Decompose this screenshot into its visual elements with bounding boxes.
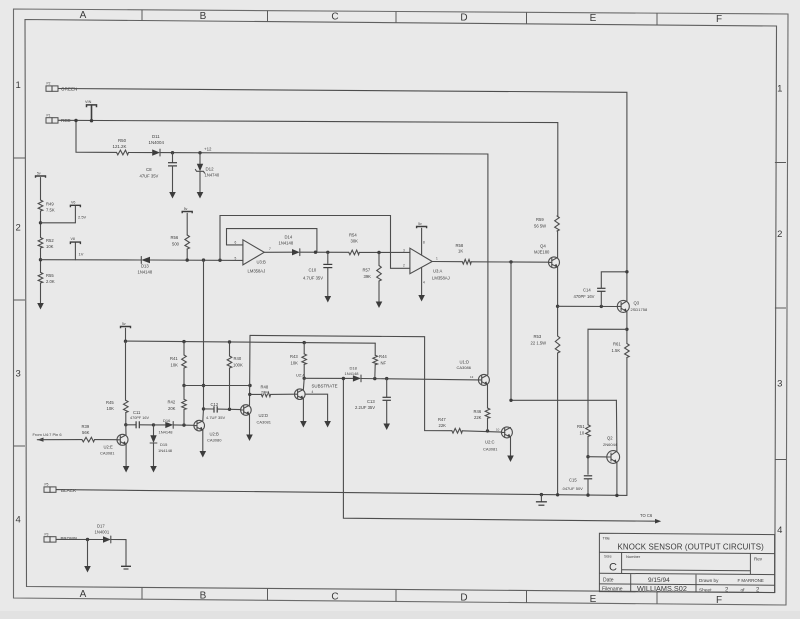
svg-text:R50: R50 [118,138,127,143]
svg-text:30K: 30K [351,239,359,244]
wire Q3 base [558,305,618,307]
svg-text:R58: R58 [456,243,464,248]
svg-text:Sheet: Sheet [699,587,712,593]
svg-text:2: 2 [777,229,782,240]
chassis ground [540,495,542,502]
svg-text:U2:B: U2:B [210,431,220,436]
svg-text:R61: R61 [613,341,621,346]
svg-text:Date: Date [603,578,614,584]
svg-text:U1:D: U1:D [460,359,470,364]
svg-text:C8: C8 [146,167,152,172]
svg-text:CA3081: CA3081 [257,419,272,424]
svg-text:V6: V6 [71,200,75,204]
svg-text:1N4001: 1N4001 [95,529,110,534]
junction collector node [509,399,512,402]
svg-text:R53: R53 [534,334,542,339]
svg-text:E: E [590,594,597,605]
svg-text:20K: 20K [168,406,176,411]
wire GREEN net [58,89,627,301]
resistor R49 7.5K [38,200,43,211]
svg-text:4.7UF 35V: 4.7UF 35V [303,276,323,281]
resistor R55 2.0K [38,272,43,283]
svg-text:2.5V: 2.5V [78,215,87,220]
svg-text:CA3081: CA3081 [100,450,115,455]
wire to D16 [154,424,166,426]
svg-text:4: 4 [312,390,314,394]
svg-text:4.7UF 35V: 4.7UF 35V [206,415,225,420]
junction C14 on green net [625,270,628,273]
junction V6 tap [39,221,42,224]
ground U2:A emitter [302,399,304,421]
svg-text:R44: R44 [379,354,387,359]
wire RED drop to +12 rail [76,121,117,153]
transistor U2:E CA3081 [117,434,128,445]
capacitor C15 .047UF 50V [584,475,592,477]
capacitor C12 4.7UF 35V [204,408,214,410]
svg-text:D15: D15 [160,442,168,447]
junction R56 on main wire [186,258,189,261]
svg-text:7: 7 [269,247,271,251]
wire U3B inverting input [227,244,243,246]
svg-text:C11: C11 [133,410,141,415]
svg-text:R43: R43 [290,354,298,359]
svg-text:13: 13 [470,375,474,379]
svg-text:R54: R54 [349,232,357,237]
svg-text:2: 2 [16,223,21,234]
power flag U3A supply [417,227,427,229]
junction R46 bottom [486,429,489,432]
svg-text:4: 4 [16,515,21,526]
resistor R45 10K [125,341,127,400]
wire BROWN net [56,538,103,540]
svg-text:R55: R55 [46,273,54,278]
svg-text:2.0K: 2.0K [46,279,55,284]
wire D16 to U2:B base [173,424,194,426]
svg-text:47UF 35V: 47UF 35V [140,173,159,178]
svg-text:Filename: Filename [602,587,623,593]
junction R57 tap [377,251,380,254]
resistor R42 20K [183,386,185,400]
capacitor C10 4.7UF 35V [327,252,329,263]
wire U2:A collector [302,378,305,389]
ground U2:E emitter [125,445,127,466]
svg-text:10: 10 [580,430,585,435]
svg-text:LM358AJ: LM358AJ [248,269,266,274]
junction C14 bottom [600,305,603,308]
resistor R51 10 [586,425,591,437]
resistor R57 39K [378,253,380,266]
svg-text:CA3086: CA3086 [457,365,472,370]
junction R40 bottom [228,408,231,411]
svg-text:1.5K: 1.5K [612,348,621,353]
wire BLACK rail [56,490,627,496]
svg-text:R47: R47 [438,417,446,422]
svg-text:P5: P5 [45,483,49,487]
power flag VIN [87,105,97,107]
diode D14 1N4148 [292,249,300,255]
diode D18 1N4148 [353,375,361,381]
wire Q2 emitter to rail [616,463,618,496]
junction D15 tap [152,423,155,426]
svg-text:D17: D17 [97,523,105,528]
junction R53 on rail [556,493,559,496]
svg-text:8: 8 [423,240,425,244]
svg-text:5v: 5v [418,222,422,226]
wire coupling drop from main node [203,260,205,409]
resistor R52 10K [38,238,43,249]
ground U2:A substrate [305,394,328,421]
svg-text:1N4148: 1N4148 [345,371,360,376]
transistor U2:B CA3080 [194,420,205,431]
svg-text:LM358AJ: LM358AJ [432,276,450,281]
svg-text:7.5K: 7.5K [46,208,55,213]
wire output down to U2:C collector node [510,262,512,400]
ground BROWN [87,540,89,567]
svg-text:1K: 1K [458,248,463,253]
svg-text:3: 3 [777,379,782,390]
svg-text:5v: 5v [184,207,188,211]
svg-text:F: F [716,14,722,25]
svg-text:A: A [80,589,87,600]
svg-text:CA3081: CA3081 [483,446,498,451]
svg-text:10K: 10K [46,244,54,249]
svg-text:5v: 5v [122,322,126,326]
svg-text:CA3080: CA3080 [207,437,222,442]
junction C13 top [385,377,388,380]
power flag R56 top [182,212,192,214]
wire R54 to U3A [359,251,410,253]
resistor R39 56K [82,437,95,442]
resistor R58 1K [462,259,471,264]
svg-text:+12: +12 [204,147,212,152]
junction inner loop return [314,251,317,254]
svg-text:NF: NF [381,360,387,365]
junction outer loop on main wire [218,259,221,262]
svg-text:C: C [331,592,338,603]
svg-text:121.2K: 121.2K [113,144,127,149]
zener D12 1N4740 [199,153,201,164]
transistor Q3 2SD1758 [617,300,629,312]
svg-text:U3:B: U3:B [257,260,267,265]
svg-text:5v: 5v [37,171,41,175]
svg-text:D: D [460,12,467,23]
resistor R56 500 [186,213,188,235]
svg-text:From U4:7 Pin 6: From U4:7 Pin 6 [33,432,63,437]
connector P5 BLACK [44,487,56,492]
resistor R43 10K [303,343,305,354]
svg-text:20K: 20K [261,390,268,394]
transistor U2:A CA3081 [295,389,306,400]
wire Q3 emitter to common rail [626,358,628,496]
resistor R47 22K [452,428,462,433]
svg-text:F: F [716,595,722,606]
wire bias to R47 [250,335,452,430]
wire U2:D collector chain [249,335,252,405]
svg-text:9/15/94: 9/15/94 [648,577,670,584]
junction C12 drop on main wire [202,258,205,261]
power flag divider top [36,176,46,178]
junction on R41-R42 wire [202,384,205,387]
svg-text:R46: R46 [474,409,482,414]
svg-text:Number: Number [626,554,641,559]
resistor R44 NF [374,343,376,355]
svg-text:1N4148: 1N4148 [279,241,294,246]
svg-text:470PF 16V: 470PF 16V [574,294,595,299]
wire D14 to R54 [300,251,349,253]
ground U2:B emitter [202,430,204,451]
junction chassis ground tap [540,493,543,496]
wire U2:B collector [202,409,205,421]
svg-text:R39: R39 [82,424,90,429]
svg-text:B: B [200,590,207,601]
svg-text:1V: 1V [79,252,84,257]
wire Q4 emitter chain [557,267,559,336]
resistor R59 56 5W [555,216,560,231]
svg-text:10K: 10K [107,406,115,411]
svg-text:R59: R59 [536,217,544,222]
svg-text:D13: D13 [141,264,149,269]
svg-text:KNOCK SENSOR (OUTPUT CIRCUITS): KNOCK SENSOR (OUTPUT CIRCUITS) [618,542,765,551]
wire D18 net [304,377,353,379]
transistor Q2 2N6044 [607,451,620,464]
svg-text:B: B [200,11,207,22]
junction Q2 emitter on rail [615,494,618,497]
svg-text:C10: C10 [309,268,317,273]
svg-text:.047UF 50V: .047UF 50V [562,486,584,491]
svg-text:of: of [741,588,746,594]
svg-text:2.2UF 35V: 2.2UF 35V [355,405,375,410]
svg-text:10K: 10K [171,362,179,367]
junction Q2 base node [586,455,589,458]
svg-text:U3:A: U3:A [433,268,443,273]
junction U2:E collector node [124,423,127,426]
svg-text:1N4148: 1N4148 [159,429,174,434]
svg-text:TO C6: TO C6 [640,513,653,518]
svg-text:V8: V8 [71,237,75,241]
ground U2:C emitter [510,437,512,455]
svg-text:P3: P3 [45,532,49,536]
junction BROWN ground tap [86,538,89,541]
transistor U2:D CA3081 [241,405,252,416]
junction C8 tap [171,151,174,154]
border row ticks right [775,162,786,164]
wire main node to U3B [41,259,142,261]
svg-text:D16: D16 [163,418,171,423]
svg-text:1N4004: 1N4004 [149,140,165,145]
svg-text:D11: D11 [152,134,160,139]
svg-text:R41: R41 [170,356,178,361]
wire R43 to collector node [303,364,305,378]
svg-text:R49: R49 [46,202,54,207]
capacitor C8 47UF 35V [172,153,174,163]
wire R48 to U2:A base [271,393,295,395]
svg-text:C14: C14 [583,287,591,292]
junction U3A output to lower stage [509,260,512,263]
svg-text:1N4740: 1N4740 [205,173,220,178]
svg-text:1: 1 [436,257,438,261]
wire RED net [58,120,558,216]
svg-text:22K: 22K [439,423,447,428]
diode D15 1N4148 [153,425,155,435]
svg-text:C12: C12 [211,402,219,407]
ground U3A [421,268,423,296]
svg-text:U2:C: U2:C [485,440,495,445]
wire inner feedback loop [227,229,317,253]
svg-text:6: 6 [235,241,237,245]
junction U2:A collector node [303,377,306,380]
resistor R50 121.2K [117,150,129,155]
junction R42 bottom on base wire [182,423,185,426]
svg-text:D: D [460,593,467,604]
svg-text:R48: R48 [261,384,269,389]
svg-text:22K: 22K [474,415,482,420]
junction R40 top [228,340,231,343]
svg-text:22 1.5W: 22 1.5W [531,341,547,346]
junction C10 tap [326,251,329,254]
diode D13 1N4148 [141,257,150,263]
wire lower bias rail [126,341,376,343]
svg-text:R45: R45 [106,400,114,405]
junction TO C6 tap [342,377,345,380]
resistor R40 100K [229,342,231,356]
svg-text:VIN: VIN [85,100,92,104]
power flag lower rail [121,327,131,329]
wire outer feedback loop [220,216,410,269]
svg-text:R40: R40 [234,356,242,361]
svg-text:BLACK: BLACK [61,488,77,493]
ground U2:D emitter [249,415,251,435]
ground divider bottom [40,283,42,303]
svg-text:E: E [590,13,597,24]
net flag V8 1V [74,242,76,259]
svg-text:R42: R42 [168,399,176,404]
svg-text:MJE180: MJE180 [534,250,550,255]
svg-text:WILLIAMS.S02: WILLIAMS.S02 [637,584,687,593]
svg-text:10K: 10K [291,360,299,365]
svg-text:500: 500 [172,242,180,247]
svg-text:P2: P2 [47,82,51,86]
wire R41-R42 node link [184,385,250,387]
resistor R54 30K [349,250,360,255]
wire +12 rail [160,153,488,375]
resistor R41 10K [183,342,185,355]
svg-text:Q2: Q2 [607,435,613,440]
junction Q3 emitter branch [625,328,628,331]
wire U3B output [264,251,292,253]
junction R41 R42 node [182,384,185,387]
wire Q2 collector [615,400,618,451]
connector P1 RED [46,118,58,123]
wire to Q2 base [588,456,607,458]
svg-text:2SD1758: 2SD1758 [631,307,648,312]
svg-text:Title: Title [603,536,611,541]
diode D17 1N4001 [103,536,111,542]
junction main node [39,258,42,261]
svg-text:R52: R52 [46,238,54,243]
resistor R46 22K [487,385,489,408]
svg-text:BROWN: BROWN [61,536,78,541]
transistor U2:C CA3081 [501,427,512,438]
svg-text:Rev: Rev [754,557,763,562]
svg-text:A: A [80,10,87,21]
junction VIN on RED wire [90,119,93,122]
junction R41 top [182,340,185,343]
svg-text:4: 4 [777,525,782,536]
diode D16 1N4148 [165,422,173,428]
svg-text:1N4148: 1N4148 [138,270,153,275]
net flag V6 2.5V [41,222,76,224]
svg-text:Q3: Q3 [634,300,640,305]
svg-text:Q4: Q4 [540,243,546,248]
svg-text:C: C [609,562,617,574]
svg-text:C13: C13 [367,399,375,404]
junction U2:A base resistor tap [248,393,251,396]
svg-text:R56: R56 [171,235,179,240]
svg-text:10: 10 [496,427,500,431]
svg-text:5: 5 [235,256,237,260]
junction C12 node [202,407,205,410]
diode D11 1N4004 [152,149,160,155]
svg-text:100K: 100K [233,362,243,367]
svg-text:P1: P1 [47,113,51,117]
junction U2:D collector tap [248,384,251,387]
wire U3A output [432,261,462,263]
junction rail B left end [124,340,127,343]
wire R39 to U2:E base [95,439,118,441]
wire R47 to U2:C base [462,431,501,432]
svg-text:D12: D12 [206,166,215,171]
svg-text:4: 4 [423,280,425,284]
svg-text:D14: D14 [285,235,293,240]
resistor R53 22 1.5W [555,336,560,353]
wire branch to R51 [588,329,627,425]
capacitor C14 470PF 16V [600,292,602,306]
border column ticks bottom [141,587,143,599]
svg-text:2: 2 [403,264,405,268]
svg-text:C: C [331,12,338,23]
svg-text:3: 3 [16,369,21,380]
svg-text:D18: D18 [350,365,358,370]
border row ticks left [14,157,26,159]
wire Q3 emitter [626,312,628,343]
junction R43 top [303,341,306,344]
wire D18 to U1:D base [361,379,478,380]
svg-text:R57: R57 [363,268,371,273]
wire R59 to Q4 collector [557,231,559,257]
svg-text:R51: R51 [577,424,585,429]
capacitor C13 2.2UF 35V [386,379,388,397]
capacitor C11 470PF 16V [126,424,136,426]
svg-text:39K: 39K [364,274,372,279]
svg-text:Drawn by: Drawn by [699,578,719,583]
wire to C6 [343,379,655,522]
svg-text:2N6044: 2N6044 [603,442,618,447]
svg-text:U2:D: U2:D [259,413,269,418]
wire R50 to D11 [129,152,152,154]
svg-text:56 5W: 56 5W [534,223,546,228]
svg-text:470PF 16V: 470PF 16V [130,416,149,420]
svg-text:C15: C15 [569,477,577,482]
svg-text:1: 1 [777,84,782,95]
wire D17 to terminal [111,540,126,566]
transistor U1:D CA3086 [478,374,489,385]
transistor Q4 MJE180 [549,257,560,268]
junction R44 bottom [373,377,376,380]
svg-text:56K: 56K [82,430,90,435]
resistor R48 20K [250,393,261,395]
wire U2:C collector to Q2 collector [511,399,616,401]
title block [599,533,774,592]
